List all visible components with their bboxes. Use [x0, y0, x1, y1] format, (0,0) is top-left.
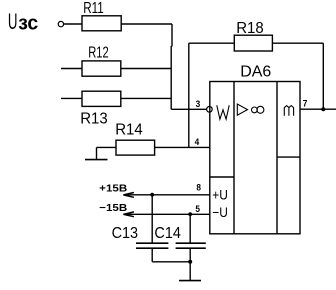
svg-text:U: U: [8, 9, 18, 34]
svg-text:C13: C13: [112, 225, 139, 242]
svg-text:зс: зс: [18, 13, 38, 35]
svg-text:−15В: −15В: [99, 202, 127, 214]
svg-text:R13: R13: [80, 111, 108, 128]
svg-text:+U: +U: [212, 187, 228, 203]
svg-text:−U: −U: [212, 204, 228, 220]
svg-text:3: 3: [196, 99, 201, 109]
svg-text:+15В: +15В: [99, 183, 127, 195]
svg-text:7: 7: [303, 98, 308, 108]
svg-text:R14: R14: [115, 121, 143, 138]
svg-text:R11: R11: [83, 0, 104, 17]
svg-text:4: 4: [195, 137, 200, 147]
svg-text:8: 8: [196, 182, 201, 192]
svg-text:5: 5: [195, 204, 200, 214]
svg-text:DA6: DA6: [240, 64, 271, 81]
svg-text:R18: R18: [236, 20, 264, 37]
svg-text:C14: C14: [154, 225, 181, 242]
svg-text:R12: R12: [88, 44, 109, 61]
